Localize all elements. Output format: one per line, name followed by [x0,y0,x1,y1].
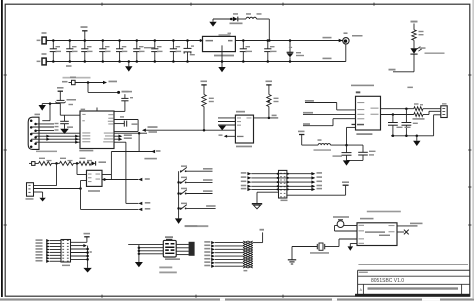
power VCC bar filter [299,134,304,136]
U7 pin4 mini gnd [350,243,357,245]
ground arrow at rail [128,62,130,67]
wire J2 left row 4 [241,185,247,187]
border tick top x=283 [282,3,284,6]
connector P1 DB9 shell [28,117,39,149]
capacitor C19 [362,145,364,152]
resistor R1 [413,24,415,30]
wire J5 right rows [176,243,189,245]
wire data bit 7 [204,265,210,267]
resistor R3 [60,161,74,165]
power VCC J4 [84,236,89,238]
crystal Y1 [292,246,317,248]
wire Y1 to U7 [325,246,339,248]
wire J2 left row 5 [241,188,247,190]
pin P2 [32,162,35,166]
floating net label [185,225,198,227]
wire J4 gnd rows [87,246,89,268]
capacitor C18 [346,145,348,153]
wire coil to rail [257,18,270,20]
capacitor C5 [119,41,121,49]
border tick left [4,74,7,76]
wire JP1 branch [87,83,89,93]
wire J2 left row 2 [241,176,247,178]
J5 labels [159,267,172,269]
wire down to U4 [110,152,112,180]
wire U3 pin T2OUT [114,132,147,134]
wire Y1 gnd [291,247,293,260]
border tick top x=374 [373,3,375,6]
J4 pin wire 1 [36,239,43,241]
caption label buttons [185,225,209,227]
wire VCC into U6 [347,126,356,128]
wire J4 vcc row [71,241,87,243]
capacitor C7 [154,41,156,49]
wire J6 pin C gnd [34,191,43,193]
capacitor C17 [405,109,407,123]
connector J4 box [61,240,71,263]
wire caps gnd bus [391,135,434,137]
wire C12 to U3 pin16 [59,104,61,116]
net label GND led [389,69,396,71]
wire X1 loop [335,225,338,227]
wire S3 net [187,193,213,195]
U3 top pin stub [96,108,98,112]
wire J6 pin A to R2 [34,185,57,187]
long label [367,211,401,213]
switch S3 [177,192,180,195]
wire U3 pin T1IN down [114,141,126,143]
wire X1 out [344,225,357,227]
wire J5 gnd drop [138,245,140,262]
U5 left pins [218,117,235,119]
wire coil to caps [331,144,364,146]
wire S4 net [187,207,216,209]
wire R7 to J3 [423,108,441,110]
power VCC label LED branch [411,21,418,23]
wire data bit 2 [204,248,210,250]
wire J2 left row 3 [241,181,247,183]
connector J5 shell [163,240,176,257]
sheet left scan band [1,0,3,297]
wire J2 left row 1 [241,172,247,174]
bus entry block [243,241,253,268]
border tick top x=191 [190,3,192,6]
J4 pin wire 4 [36,248,43,250]
DB9 pins left column [30,119,33,122]
connector J6 3pin [27,183,34,197]
ground of U1 [221,45,223,67]
wire TP1 to GND rail [345,44,347,62]
bus block J5 [189,242,195,256]
border tick right [468,74,471,76]
U4 part label [88,190,100,192]
ground arrow filter [343,160,350,165]
wire data bit 4 [204,255,210,257]
J4 pin wire 8 [36,260,43,262]
sheet bottom scan band [0,298,474,300]
capacitor C13 [64,115,66,121]
J4 pin wire 3 [36,245,43,247]
capacitor C8 [172,41,174,49]
wire data bit 5 [204,258,210,260]
wire C12 to gnd arrow [59,102,61,105]
power VCC bar at rail [82,30,87,32]
wire caps to gnd [347,159,364,161]
IC U6 box [356,96,381,130]
ground arrow top circuit [212,19,214,22]
diode D2 zener [289,41,291,53]
title block top gray line [358,264,468,265]
ground arrow C13 [64,124,66,129]
title block box [358,269,470,271]
op-amp U3 MAX232 box [80,111,114,149]
wire A net 2 [303,112,313,114]
capacitor C12 polarized [59,91,61,100]
ground arrow serial [41,104,43,105]
ground bars Y1 [288,259,296,261]
capacitor C9 electrolytic [187,41,189,49]
wire U3 pin R2OUT arrow [114,138,119,140]
connector P1 label [36,151,57,153]
svg-text:8051SBC V1.0: 8051SBC V1.0 [371,278,404,284]
wire TXD jog [138,133,140,151]
J4 pin wire 5 [36,251,43,253]
wire U4 RST out [102,179,138,181]
regulator U1 7805 [200,39,204,42]
bus top link [253,242,263,244]
wire GND rail bottom [47,61,346,63]
title block bottom thick [355,294,470,297]
capacitor C1 [52,41,54,49]
switch S1 [180,170,182,172]
wire diode to coil [238,18,246,20]
wire A net 3 [303,123,310,125]
bus arrow into wire [218,126,226,131]
connector J3 [441,106,447,118]
ground arrow J5 [135,262,143,267]
wire DB9 to U3 row1 [31,132,80,134]
wire U7 out right [397,225,418,227]
J2 label [281,200,288,202]
wire DB9 to U3 row2 [36,135,80,137]
power VCC bar serial [58,90,63,92]
no-connect X [404,230,409,235]
diode D4 [91,161,95,165]
resistor R6 [268,85,270,95]
wire S1 net [187,170,213,172]
LED D3 [413,40,415,48]
value label 0.1uF row [144,47,155,48]
wire J6 pin B [34,188,81,190]
label line right of LED [425,53,445,54]
border tick bottom x=283 [282,295,284,298]
diode D1 [233,17,238,22]
wire data bit 0 [204,241,210,243]
wire U3 pin R2IN arrow [114,135,119,137]
IC U5 box [235,115,253,143]
DB9 pins right column [34,123,37,126]
capacitor C15 bracket [114,119,138,121]
U5 bottom left pin [227,135,236,137]
power VCC R5 [201,84,206,86]
wire U7 nc [397,231,404,233]
capacitor C6 [136,41,138,49]
connector J1 pin 1 [42,37,46,44]
net label GND right [323,58,332,60]
net label GND under rail [66,65,72,66]
wire top circuit [213,18,233,20]
ground bar J2 [252,203,262,205]
resistor R2 [39,161,52,165]
DB9 stub wires [36,123,54,125]
ground arrow caps [416,136,418,141]
wire U6 out2 [381,114,414,116]
wire R3 to U4 pin [76,163,78,174]
switch S4 [177,207,180,210]
J4 label [62,265,70,267]
border tick bottom x=196 [195,295,197,298]
wire LED to GND [413,54,415,72]
IC U7 box [357,223,397,246]
connector J2 box [279,170,287,198]
wire J4 row2 [71,245,84,247]
wire S2 net [187,181,213,183]
capacitor C2 [69,41,71,49]
resistor R4 [79,161,91,165]
border tick top x=102 [101,3,103,6]
inductor L1 [246,17,257,19]
capacitor C3 [84,41,86,49]
wire JP1 net [75,82,103,84]
J4 pin wire 7 [36,257,43,259]
wire chain vertical [178,171,180,218]
U5 part label [236,146,252,148]
terminal bar [343,184,349,186]
oscillator X1 can [337,221,344,228]
connector J1 pin 2 [42,58,46,65]
U3 pin labels inside [82,114,85,115]
title block small label [359,272,368,273]
capacitor C16 [392,115,394,123]
wire A net 1 [305,100,314,102]
resistor R5 [203,85,205,95]
inductor L2 ferrite [318,144,330,146]
J4 pin wire 6 [36,254,43,256]
wire J2 right row 2 [287,177,289,179]
border tick bottom x=102 [101,295,103,298]
resistor R7 [414,107,423,111]
wire J2 right row 5 [287,188,289,190]
power VCC R6 [266,84,271,86]
wire J2 gnd row [257,191,279,193]
wire VCC to coil [301,135,303,146]
wire data bit 6 [204,261,210,263]
wire U4 left pin down net [81,180,87,182]
header JP1 pin [72,80,76,84]
wire RST net [142,129,146,132]
wire VIN rail top right of U1 [235,40,342,42]
wire J2 right row 4 [287,185,289,187]
capacitor C14 right top [114,110,125,112]
wire R8 to J3 [423,114,429,116]
wire DB9 to U3 row4 [36,141,80,143]
wire J2 right row 3 [287,181,289,183]
IC U4 DS1232 [87,170,103,186]
wire U4 right pin to net [102,174,111,176]
wire gnd link DB9 [49,104,51,121]
ground arrow J4 [83,268,91,273]
wire VIN rail top [47,40,203,42]
U6 part label [356,133,372,135]
capacitor C10 [242,41,244,49]
U3 part label [79,150,93,152]
wire U5 out [254,117,279,119]
wire DB9 to U3 row3 [31,138,80,140]
VCC label right [407,87,413,89]
wire T1 net to arrow [126,202,138,204]
title block sheet bar [368,287,459,290]
test point TP1 circle [339,39,343,42]
U6 extra pin [352,124,356,125]
capacitor C11 [267,41,269,49]
ground arrow chain [175,218,182,224]
resistor R8 [414,113,423,117]
switch S2 [177,181,180,184]
sheet right scan line [473,0,474,298]
wire J2 right row 1 [287,173,289,175]
wire J5 left rows [128,244,163,246]
bus label [244,270,248,272]
wire data bit 1 [204,244,210,246]
wire J2 SCK long [287,194,346,196]
L2 label [314,149,332,151]
capacitor C4 [102,41,104,49]
wire U6 out1 [381,108,414,110]
wire data bit 3 [204,251,210,253]
stray label [90,251,92,253]
J4 pin wire 2 [36,242,43,244]
net label above [144,158,157,160]
